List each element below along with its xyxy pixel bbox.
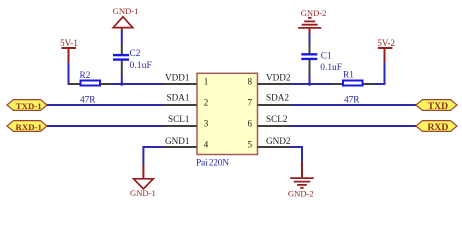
svg-text:TXD-1: TXD-1 — [16, 101, 42, 111]
port RXD — [416, 121, 457, 133]
wire GND2 to ground — [291, 147, 303, 162]
ground GND-2 top — [298, 8, 326, 34]
wire R1 to 5V-2 — [375, 63, 385, 85]
svg-text:5: 5 — [248, 140, 253, 150]
svg-text:7: 7 — [248, 98, 253, 108]
capacitor C1 — [301, 43, 342, 75]
pin 4 GND1 — [164, 136, 209, 150]
port TXD — [416, 100, 457, 112]
wire VDD2 — [291, 83, 333, 85]
svg-text:SCL2: SCL2 — [266, 114, 288, 124]
wire VDD1 — [111, 83, 164, 85]
ground GND-1 bottom — [130, 165, 156, 198]
port RXD-1 — [7, 121, 47, 132]
svg-text:GND1: GND1 — [165, 136, 190, 146]
svg-text:2: 2 — [204, 98, 209, 108]
svg-text:VDD1: VDD1 — [165, 72, 190, 82]
junction node VDD1/C2 — [120, 82, 123, 85]
svg-text:5V-2: 5V-2 — [377, 38, 395, 48]
power flag 5V-1 — [60, 38, 78, 63]
wire GND-1 to C2 — [121, 31, 123, 45]
svg-text:GND-2: GND-2 — [301, 8, 327, 18]
svg-text:3: 3 — [204, 119, 209, 129]
port TXD-1 — [7, 100, 47, 111]
svg-text:RXD-1: RXD-1 — [16, 122, 42, 132]
svg-text:5V-1: 5V-1 — [60, 38, 78, 48]
svg-text:GND-1: GND-1 — [130, 188, 156, 198]
pin 6 SCL2 — [248, 114, 291, 128]
svg-text:0.1uF: 0.1uF — [320, 63, 342, 73]
svg-text:6: 6 — [248, 119, 253, 129]
svg-text:R2: R2 — [80, 71, 91, 81]
capacitor C2 — [113, 44, 152, 75]
svg-text:GND-1: GND-1 — [113, 6, 139, 16]
pin 3 SCL1 — [164, 114, 209, 128]
wire SCL2 to RXD — [291, 125, 417, 127]
wire GND1 to ground — [143, 147, 164, 165]
svg-text:SDA2: SDA2 — [266, 92, 289, 102]
svg-text:C1: C1 — [321, 52, 332, 62]
pin 5 GND2 — [248, 136, 291, 150]
svg-text:SDA1: SDA1 — [167, 92, 190, 102]
resistor R2 — [70, 71, 112, 106]
svg-text:SCL1: SCL1 — [168, 114, 190, 124]
wire GND-2 to C1 — [309, 34, 311, 44]
svg-text:4: 4 — [204, 140, 209, 150]
svg-text:0.1uF: 0.1uF — [130, 60, 153, 71]
svg-text:Pai220N: Pai220N — [196, 159, 229, 169]
wire 5V-1 to R2 — [69, 63, 71, 85]
wire RXD-1 to pin 3 — [47, 125, 164, 127]
IC U1 Pai220N body — [196, 73, 258, 168]
wire C1 to VDD2 — [309, 75, 311, 85]
svg-text:VDD2: VDD2 — [266, 72, 291, 82]
svg-text:GND-2: GND-2 — [288, 188, 314, 198]
ground GND-2 bottom — [288, 162, 314, 199]
svg-text:R1: R1 — [343, 71, 354, 81]
svg-text:8: 8 — [248, 77, 253, 87]
pin 8 VDD2 — [248, 72, 291, 86]
svg-text:C2: C2 — [130, 49, 141, 59]
svg-text:RXD: RXD — [428, 122, 449, 133]
svg-text:GND2: GND2 — [266, 136, 291, 146]
resistor R1 — [332, 71, 375, 106]
pin 7 SDA2 — [248, 92, 291, 107]
svg-text:TXD: TXD — [428, 101, 448, 112]
wire TXD-1 to pin 2 — [47, 104, 164, 106]
junction node VDD2/C1 — [308, 82, 311, 85]
power flag 5V-2 — [377, 38, 395, 63]
pin 2 SDA1 — [164, 92, 208, 107]
wire C2 to VDD1 — [121, 75, 123, 85]
svg-text:1: 1 — [204, 77, 209, 87]
pin 1 VDD1 — [164, 72, 208, 86]
wire SDA2 to TXD — [291, 104, 417, 106]
ground GND-1 top — [113, 6, 139, 31]
